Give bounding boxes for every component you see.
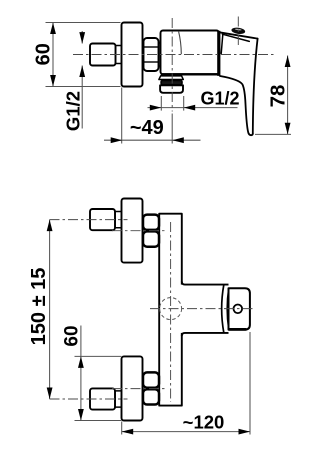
svg-text:G1/2: G1/2 (62, 91, 83, 131)
svg-text:~49: ~49 (130, 117, 164, 139)
svg-text:150 ± 15: 150 ± 15 (28, 268, 50, 346)
svg-text:G1/2: G1/2 (201, 89, 240, 109)
svg-text:78: 78 (267, 85, 290, 108)
svg-text:60: 60 (61, 325, 82, 346)
svg-text:~120: ~120 (183, 412, 225, 433)
svg-text:60: 60 (33, 43, 55, 65)
